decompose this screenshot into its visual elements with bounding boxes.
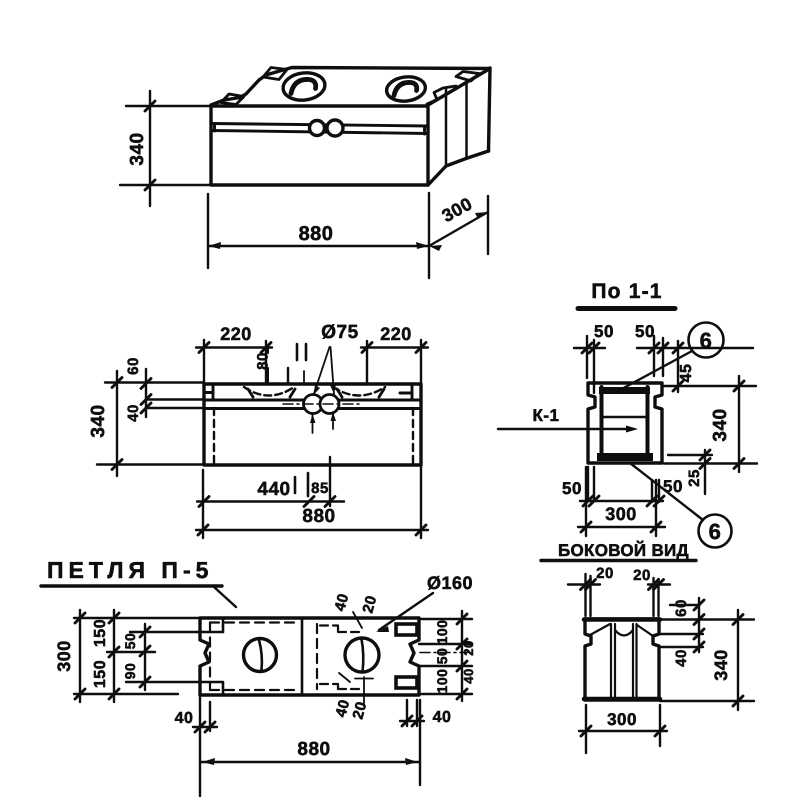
- svg-text:300: 300: [607, 710, 637, 729]
- plan left ext center: [107, 651, 155, 653]
- plan dim 150 150 line: [113, 610, 115, 702]
- section dim 25 ticks: [700, 450, 710, 469]
- iso dim 300 extension: [487, 196, 489, 254]
- side bottom edge thick: [584, 697, 660, 702]
- section dim 25 line: [704, 450, 706, 494]
- front section mark 1 bottom left bar: [294, 477, 297, 493]
- plan ann bottom tick: [355, 678, 373, 680]
- front section mark 1 top left bar: [296, 344, 299, 360]
- svg-text:Ø75: Ø75: [321, 322, 358, 343]
- plan hidden recess left dashed top: [210, 621, 299, 623]
- plan loop circle right: [345, 638, 379, 672]
- iso dim 300 line: [429, 212, 488, 246]
- side top edge thick: [584, 617, 660, 622]
- svg-text:90: 90: [122, 663, 138, 680]
- plan loop wire chord right: [362, 639, 364, 672]
- plan corner notch bottom-left: [200, 682, 223, 695]
- section dim 340 ext bottom: [664, 462, 757, 464]
- front wire circle right: [320, 395, 339, 414]
- iso dim 340 tick top: [145, 101, 155, 111]
- plan right dim ticks: [457, 614, 467, 699]
- svg-text:40: 40: [433, 709, 452, 726]
- plan hidden recess right dashed steps top: [320, 626, 359, 633]
- plan dim 40 left ticks: [195, 722, 215, 732]
- section dim 300 line: [578, 526, 665, 528]
- front center line dashes: [283, 403, 361, 405]
- plan hidden recess left dashed side: [209, 623, 211, 691]
- plan outline with side notches: [200, 618, 419, 695]
- front dia leader right branch: [331, 347, 335, 394]
- iso band end tick right: [423, 126, 426, 134]
- iso loop hook left: [291, 79, 316, 93]
- svg-text:К-1: К-1: [533, 406, 560, 425]
- svg-text:50: 50: [635, 322, 655, 341]
- front groove line upper: [204, 399, 421, 402]
- svg-text:50: 50: [663, 477, 683, 496]
- front dim 60 40 ext b: [146, 407, 204, 409]
- plan dim 300 line: [79, 610, 81, 702]
- iso dim 340 line: [149, 91, 151, 206]
- iso top face corner notch A: [221, 94, 244, 105]
- front left step horizontal: [204, 391, 213, 394]
- front dim 60 40 ext a: [146, 398, 204, 400]
- front dim 60 40 line: [145, 369, 147, 417]
- iso groove band line lower: [211, 131, 428, 134]
- iso dim 880 arrow right: [416, 242, 429, 249]
- plan right ext y666: [419, 665, 472, 667]
- svg-text:880: 880: [302, 506, 335, 527]
- side dim 340 ticks: [733, 615, 743, 707]
- plan dim 40 right ticks: [402, 716, 422, 726]
- section dim 300 ext right: [655, 480, 657, 536]
- section callout 6 top leader: [618, 351, 692, 391]
- section inner wall right: [646, 387, 650, 459]
- iso side face bottom edges: [428, 151, 489, 185]
- front hidden loop arc left dashed: [244, 387, 294, 396]
- svg-text:340: 340: [710, 408, 731, 441]
- plan left ext y632: [130, 631, 200, 633]
- svg-text:50: 50: [434, 648, 450, 665]
- section callout circle 6 top: [689, 323, 724, 358]
- plan title leader: [214, 587, 236, 607]
- front dim 340 line: [116, 371, 118, 476]
- plan bottom ext right long: [419, 700, 421, 785]
- svg-text:150: 150: [92, 660, 109, 688]
- section dim 50 50 bottom ticks: [583, 496, 664, 506]
- plan dim 50 90 ticks: [140, 627, 150, 687]
- front dim 440 line: [197, 500, 344, 502]
- front section cut line stub top: [303, 371, 305, 384]
- svg-text:100: 100: [434, 669, 450, 694]
- svg-text:20: 20: [633, 567, 651, 584]
- section dim 300 ticks: [581, 522, 661, 532]
- svg-text:50: 50: [122, 633, 138, 650]
- front dia leader arrow right: [330, 384, 336, 394]
- front dim 440 ticks: [199, 497, 335, 507]
- section dim 300 ext left: [585, 467, 587, 536]
- svg-text:150: 150: [92, 619, 109, 647]
- side dim 60 line: [698, 598, 700, 652]
- plan bottom ext right short: [407, 700, 417, 726]
- front hidden edge left dashed: [213, 408, 215, 463]
- front dim 60 40 ticks: [141, 379, 151, 414]
- svg-text:40: 40: [673, 649, 690, 667]
- svg-text:20: 20: [461, 640, 476, 655]
- svg-text:По 1-1: По 1-1: [591, 280, 662, 303]
- svg-text:60: 60: [125, 357, 142, 375]
- plan dim 40 left bar: [193, 726, 217, 728]
- plan right dim line: [461, 611, 463, 701]
- plan right ext y694: [419, 693, 472, 695]
- section top plate item 6: [599, 387, 650, 394]
- side dim 60 ref line: [670, 604, 699, 606]
- iso loop hook right: [394, 82, 417, 95]
- iso groove band line upper: [211, 124, 428, 127]
- front dim 880 ext left: [202, 470, 204, 538]
- side flare diagonal right: [637, 625, 653, 636]
- side dim 40 ticks: [694, 629, 704, 652]
- front dia tail left: [312, 414, 314, 433]
- svg-text:40: 40: [175, 710, 194, 727]
- svg-text:6: 6: [709, 519, 722, 544]
- svg-text:440: 440: [257, 479, 290, 500]
- svg-text:40: 40: [461, 668, 476, 683]
- front dia tail arrow left: [310, 414, 316, 423]
- iso dim 880 extension left: [207, 194, 209, 268]
- plan dim 880 line: [200, 761, 420, 763]
- front dia leader arrow left: [314, 385, 321, 395]
- svg-text:100: 100: [434, 620, 450, 645]
- section callout circle 6 bottom: [699, 515, 732, 548]
- svg-text:Ø160: Ø160: [427, 573, 473, 593]
- side dim 300 ext left: [585, 705, 587, 753]
- plan left ext y618: [74, 617, 200, 619]
- side dim 340 line: [737, 610, 739, 710]
- section dim 50 50 top line: [574, 347, 753, 349]
- side wire post lines: [611, 624, 637, 697]
- svg-text:60: 60: [673, 599, 690, 617]
- front section mark 1 top right bar: [305, 344, 308, 360]
- iso dim 880 extension right: [428, 193, 430, 278]
- front dim 340 extension top: [105, 381, 204, 383]
- svg-text:85: 85: [311, 480, 329, 497]
- plan hidden recess left dashed bottom: [210, 689, 299, 691]
- plan right center dashes: [420, 652, 474, 654]
- svg-text:300: 300: [605, 504, 637, 524]
- plan ann top leader: [353, 612, 362, 628]
- front dim 220 right line: [361, 346, 428, 348]
- front dim 880 ticks: [198, 525, 426, 535]
- plan left ext y694: [74, 693, 178, 695]
- iso dim 300 arrow right: [475, 212, 488, 219]
- front dim 220 right extension b: [420, 340, 422, 384]
- plan title underline: [41, 584, 222, 587]
- svg-text:20: 20: [596, 565, 614, 582]
- section title underline: [578, 306, 675, 311]
- front dia leader left branch: [314, 347, 330, 395]
- side channel arc: [615, 630, 633, 636]
- front dim 220 left extension b: [265, 341, 267, 384]
- section dim 340 ext top: [664, 385, 756, 387]
- front groove line lower: [204, 407, 421, 410]
- iso loop oval left: [282, 71, 327, 103]
- section dim 50 50 bottom ext lines: [588, 467, 659, 502]
- svg-text:880: 880: [299, 223, 334, 245]
- iso dim 340 tick bottom: [145, 180, 155, 190]
- iso top face outline: [211, 68, 490, 106]
- section dim 50 50 bottom line: [580, 500, 663, 502]
- section body outline: [588, 383, 662, 463]
- iso loop oval right: [385, 75, 427, 104]
- side ext y647: [660, 646, 703, 648]
- svg-text:ПЕТЛЯ П-5: ПЕТЛЯ П-5: [47, 557, 213, 583]
- front dim 340 ticks: [112, 378, 122, 470]
- iso dim 880 line: [208, 245, 429, 247]
- front section mark 1 bottom right bar: [307, 473, 310, 496]
- front dim 80 tick: [287, 368, 289, 384]
- plan right ext y644: [419, 643, 472, 645]
- plan ann bottom leader slash: [339, 673, 350, 682]
- plan corner notch bottom-right: [396, 677, 417, 688]
- section dim 50 50 top ext lines: [587, 336, 663, 393]
- plan divider line: [301, 618, 304, 695]
- front hidden edge right dashed: [412, 408, 414, 463]
- plan right ext y619: [419, 618, 472, 620]
- svg-text:50: 50: [594, 322, 614, 341]
- side dim 340 ext top: [660, 618, 754, 620]
- plan dim 300 ticks: [75, 613, 85, 699]
- front left step vertical: [212, 384, 215, 399]
- section dim 50 50 top ticks: [582, 343, 668, 353]
- front dia tail arrow right: [331, 412, 337, 421]
- front dim 880 ext right: [420, 467, 422, 538]
- side dim 20 ticks: [581, 580, 664, 590]
- plan dim 40 right bar: [400, 720, 424, 722]
- svg-text:40: 40: [125, 404, 142, 422]
- side dim 20 ext pairs: [586, 574, 659, 616]
- plan dim 880 arrows: [202, 758, 418, 765]
- svg-text:25: 25: [686, 469, 703, 487]
- svg-text:880: 880: [297, 739, 330, 760]
- plan left ext y682: [126, 681, 200, 683]
- svg-text:220: 220: [220, 324, 252, 344]
- front dim 220 left extension a: [203, 340, 205, 384]
- section K-1 leader: [498, 428, 632, 430]
- iso side face channel line 1: [445, 89, 448, 165]
- iso loop wire circle left: [310, 121, 325, 136]
- plan loop circle left: [244, 639, 277, 672]
- iso side face right edge: [489, 68, 491, 151]
- svg-text:6: 6: [700, 328, 713, 353]
- iso front-right corner zigzag: [427, 86, 456, 104]
- section dim 45 ticks: [673, 343, 683, 391]
- plan bottom ext left short: [209, 702, 211, 731]
- iso dim 340 extension bottom: [120, 184, 210, 186]
- section dim 340 line: [738, 376, 740, 472]
- front dim 340 extension bottom: [97, 463, 204, 465]
- iso side face channel line 2: [465, 83, 468, 158]
- section dim 25 ext: [668, 454, 712, 456]
- plan dia leader: [379, 593, 433, 630]
- front dim 880 line: [196, 529, 428, 531]
- svg-text:50: 50: [562, 479, 582, 498]
- plan ann bottom vertical: [363, 677, 365, 706]
- front dim 220 right ticks: [362, 343, 426, 353]
- front outline: [204, 384, 421, 465]
- plan bottom ext left long: [199, 695, 201, 796]
- iso band end tick left: [213, 124, 216, 132]
- section K-1 leader arrow: [626, 426, 638, 433]
- svg-text:340: 340: [127, 132, 148, 165]
- plan dim 50 90 line: [144, 624, 146, 690]
- iso top face corner notch B: [263, 68, 287, 80]
- svg-text:340: 340: [88, 404, 109, 437]
- front right step horizontal: [400, 392, 412, 395]
- front dim 220 left line: [196, 346, 272, 348]
- side title underline: [541, 559, 696, 562]
- iso front face: [211, 106, 428, 185]
- front dia tail right: [332, 412, 334, 429]
- svg-text:45: 45: [678, 364, 695, 383]
- side dim 340 ext bottom: [660, 700, 754, 702]
- section inner wall left: [600, 387, 604, 459]
- svg-text:БОКОВОЙ ВИД: БОКОВОЙ ВИД: [558, 540, 689, 560]
- svg-text:300: 300: [54, 640, 74, 672]
- side dim 20 line: [568, 583, 670, 585]
- plan hidden recess right dashed side: [316, 624, 318, 689]
- front dim 440 ext right: [329, 457, 331, 506]
- plan corner notch top-right: [396, 624, 417, 635]
- iso dim 880 arrow left: [208, 242, 221, 249]
- front right step vertical: [411, 384, 414, 400]
- side ext y634: [660, 633, 703, 635]
- front arc curl marks: [248, 389, 384, 397]
- side dim 300 ext right: [659, 705, 661, 746]
- plan hidden recess right dashed steps bottom: [320, 684, 359, 689]
- svg-text:80: 80: [255, 352, 272, 370]
- iso top face corner notch C: [456, 72, 479, 82]
- side dim 300 ticks: [581, 726, 665, 736]
- plan dim 150 150 ticks: [109, 613, 119, 699]
- section dim 340 ticks: [734, 381, 744, 469]
- iso dim 300 arrow left: [429, 245, 442, 251]
- svg-text:340: 340: [711, 649, 731, 681]
- front wire circle left: [304, 395, 323, 414]
- side flare diagonal left: [590, 624, 610, 635]
- front dim 80 extension: [267, 347, 269, 384]
- plan loop wire chord left: [259, 640, 262, 670]
- front dim 220 left ticks: [199, 343, 271, 353]
- section callout 6 bottom leader: [630, 463, 703, 520]
- plan dia leader arrow: [376, 626, 389, 632]
- iso dim 340 extension top: [126, 105, 211, 107]
- section middle line: [601, 416, 648, 418]
- section bottom plate item 6: [597, 453, 653, 461]
- side dim 300 line: [579, 730, 667, 732]
- iso loop wire circle right: [327, 120, 343, 136]
- side dim 60 ticks: [694, 600, 704, 625]
- section dim 45 line: [677, 341, 679, 392]
- side outline with notches: [585, 619, 659, 700]
- front hidden loop arc right dashed: [333, 387, 385, 396]
- svg-text:220: 220: [380, 324, 412, 344]
- plan corner notch top-left: [200, 618, 223, 632]
- front dim 220 right extension a: [366, 341, 368, 384]
